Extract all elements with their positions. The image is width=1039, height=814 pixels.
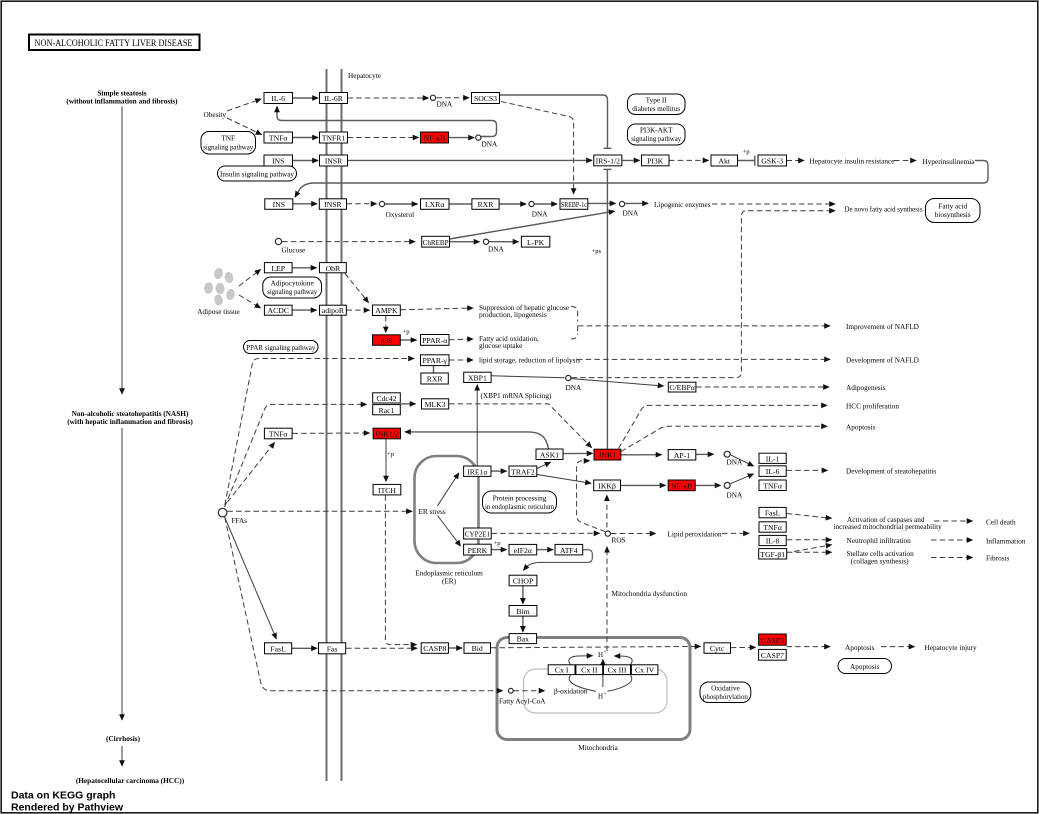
wire Cytc to CASP3/7 dashed — [731, 646, 756, 648]
svg-text:TNF: TNF — [221, 135, 235, 143]
wire TNFR1 to NF-kB dashed — [348, 137, 419, 139]
gene box PPARa — [421, 335, 450, 346]
wire oxysterol to LXRa — [385, 203, 418, 205]
wire Akt inhibits GSK-3 — [738, 160, 755, 162]
svg-text:FasL: FasL — [765, 509, 781, 518]
svg-text:AMPK: AMPK — [375, 306, 398, 315]
wire DNA7 to IL-1 IL-6 — [730, 455, 754, 466]
svg-text:(without inflammation and fibr: (without inflammation and fibrosis) — [66, 97, 178, 106]
wire XBP1 to DNA6 — [491, 376, 564, 378]
wire fatty acyl-CoA to beta-oxidation dashed — [514, 690, 545, 692]
svg-text:Cytc: Cytc — [710, 644, 725, 653]
svg-text:β-oxidation: β-oxidation — [554, 688, 588, 696]
svg-text:(ER): (ER) — [442, 578, 457, 586]
gene box Rac1 — [373, 405, 401, 415]
wire obesity to IL-6 dashed — [227, 99, 261, 111]
svg-text:biosynthesis: biosynthesis — [935, 211, 971, 219]
node ROS circle — [605, 531, 610, 536]
gene box Cdc42 — [373, 393, 401, 403]
svg-text:in endoplasmic reticulum: in endoplasmic reticulum — [485, 503, 554, 511]
progression axis labels — [66, 89, 178, 106]
wire ER stress to PERK — [438, 516, 461, 547]
wire ATF4 curve to CHOP — [524, 550, 593, 571]
svg-text:+p: +p — [742, 149, 750, 156]
wire JNK1 to HCC proliferation dashed — [619, 405, 828, 448]
node DNA circle top — [430, 95, 435, 100]
wire ChREBP diagonal to DNA4 — [450, 211, 615, 239]
gene box TNFa — [264, 132, 293, 143]
wire PERK to eIF2a — [492, 549, 507, 551]
svg-text:Mitochondria dysfunction: Mitochondria dysfunction — [612, 590, 688, 598]
svg-text:+ps: +ps — [592, 248, 602, 255]
wire progression line 1 — [121, 107, 123, 395]
gene box INS lower — [265, 199, 293, 210]
wire DNA8 up to cytokines — [730, 474, 754, 484]
gene box ATF4 — [555, 544, 583, 555]
membrane line inner — [341, 69, 343, 781]
wire LXRa RXR bind — [449, 203, 472, 205]
svg-text:FFAs: FFAs — [232, 517, 248, 525]
gene box IRS-1/2 — [594, 155, 622, 166]
svg-text:TNFα: TNFα — [269, 430, 288, 439]
wire SOCS3 inhibits IRS-1/2 — [500, 95, 608, 148]
wire adipose to LEP dashed — [239, 270, 261, 287]
wire IKKb to NF-kB2 — [621, 484, 666, 486]
node DNA circle 3 — [529, 201, 534, 206]
svg-text:Adipose tissue: Adipose tissue — [197, 308, 240, 316]
svg-text:TNFα: TNFα — [269, 134, 288, 143]
svg-text:PI3K: PI3K — [647, 157, 664, 166]
NASH label — [67, 409, 193, 426]
wire complex vertical arrow — [602, 660, 604, 677]
svg-text:Adipogenesis: Adipogenesis — [846, 384, 886, 392]
wire lipid storage to development of NAFLD dashed — [577, 358, 830, 360]
wire FasL to activation text dashed — [787, 514, 832, 519]
gene box IL-6R — [320, 93, 348, 104]
svg-text:+: + — [604, 651, 607, 656]
gene box PPARg — [421, 355, 450, 366]
gene box CASP7 — [759, 649, 787, 660]
gene box JNK1 red — [594, 449, 621, 460]
gene box Cytc — [704, 643, 731, 654]
svg-text:TRAF2: TRAF2 — [511, 467, 535, 476]
wire to hyperinsulinemia dashed — [894, 160, 916, 162]
wire FFAs to PPARg dashed — [225, 359, 414, 506]
svg-text:PPAR-γ: PPAR-γ — [422, 356, 447, 365]
gene box TNFR1 — [320, 132, 348, 143]
svg-text:Data on KEGG graph: Data on KEGG graph — [11, 790, 115, 802]
wire p38 to PPARa — [401, 339, 417, 341]
svg-text:Akt: Akt — [718, 157, 730, 166]
svg-text:TGF-β1: TGF-β1 — [760, 550, 785, 559]
wire complex arrows top left — [569, 656, 593, 665]
wire TRAF2 to ASK1 — [537, 462, 551, 468]
activation text — [834, 516, 943, 531]
wire hyperinsulinemia feedback to INS — [295, 161, 988, 198]
svg-text:XBP1: XBP1 — [468, 374, 487, 383]
svg-text:Hyperinsulinemia: Hyperinsulinemia — [923, 158, 976, 166]
wire NF-kB2 to DNA8 — [695, 484, 720, 486]
wire TGF-b1 to stellate dashed — [787, 551, 832, 553]
svg-text:CASP3: CASP3 — [761, 636, 784, 645]
wire DNA6 up to de novo dashed — [572, 211, 836, 378]
svg-text:Hepatocyte injury: Hepatocyte injury — [925, 644, 978, 652]
wire IRS-1/2 to PI3K — [622, 159, 640, 161]
wire FFAs to TNFa2 dashed — [228, 443, 275, 503]
svg-text:lipid storage, reduction of li: lipid storage, reduction of lipolysis — [479, 357, 580, 365]
gene box INSR lower — [319, 199, 346, 210]
svg-text:IL-1: IL-1 — [766, 454, 780, 463]
gene box IL-8 — [759, 535, 786, 545]
gene box Akt — [711, 155, 738, 166]
wire SREBP-1c to DNA4 — [588, 202, 616, 204]
gene box Bax — [509, 634, 536, 644]
gene box C/EBPa — [668, 382, 696, 392]
node DNA circle 5 — [483, 239, 488, 244]
wire IL-6 to development of steatohepatitis dashed — [787, 469, 828, 471]
svg-text:Oxysterol: Oxysterol — [386, 211, 415, 219]
svg-text:Cdc42: Cdc42 — [376, 394, 396, 403]
wire TRAF2 to IKKb — [537, 475, 591, 484]
gene box NF-kB2 red — [668, 480, 695, 491]
svg-text:glucose uptake: glucose uptake — [479, 342, 522, 350]
svg-text:Insulin signaling pathway: Insulin signaling pathway — [220, 171, 294, 179]
gene box MLK3 — [422, 399, 449, 409]
svg-text:TNFα: TNFα — [763, 523, 782, 532]
svg-text:(XBP1 mRNA Splicing): (XBP1 mRNA Splicing) — [481, 392, 552, 400]
node DNA circle 7 — [724, 451, 730, 457]
svg-text:+: + — [604, 692, 607, 697]
svg-text:Hepatocyte insulin resistance: Hepatocyte insulin resistance — [810, 158, 895, 166]
svg-text:FasL: FasL — [270, 645, 286, 654]
svg-text:GSK-3: GSK-3 — [761, 157, 783, 166]
wire PPARg RXR connector — [433, 366, 435, 374]
pathway box oxidative phosphorylation — [700, 682, 751, 703]
svg-text:Rendered by Pathview: Rendered by Pathview — [11, 802, 124, 814]
gene box IL-1 — [759, 453, 786, 463]
pathway box adipocytokine — [263, 277, 322, 298]
wire obesity to TNFa dashed — [227, 118, 262, 135]
gene box Cx III — [604, 665, 631, 675]
wire CHOP to Bim — [522, 586, 524, 604]
wire complex arrows bottom left — [569, 676, 596, 692]
svg-text:PI3K-AKT: PI3K-AKT — [640, 127, 673, 135]
svg-text:phosphorylation: phosphorylation — [703, 693, 748, 701]
wire DNA3 to SREBP-1c — [535, 203, 558, 205]
brace to improvement — [571, 307, 578, 340]
wire ROS curve to JNK1 dashed — [577, 461, 606, 532]
svg-text:Fas: Fas — [327, 645, 338, 654]
wire IRE1a to TRAF2 — [491, 470, 506, 472]
node fatty acyl-CoA circle — [508, 688, 513, 693]
svg-text:+p: +p — [493, 540, 501, 547]
svg-text:LEP: LEP — [271, 264, 285, 273]
svg-text:INS: INS — [272, 157, 284, 166]
svg-text:Endoplasmic reticulum: Endoplasmic reticulum — [415, 570, 483, 578]
svg-text:H: H — [598, 693, 603, 701]
wire JNK1 to AP-1 — [621, 454, 662, 456]
footer credits — [11, 790, 124, 814]
svg-text:ACDC: ACDC — [268, 306, 289, 315]
gene box INS — [264, 155, 293, 166]
suppression text — [479, 304, 569, 319]
gene box SOCS3 — [472, 93, 500, 104]
svg-text:DNA: DNA — [437, 101, 453, 109]
node DNA circle NF-kB — [476, 135, 481, 140]
wire JNK1/2 to ITCH — [385, 439, 387, 482]
wire FFAs to ER stress dashed — [227, 510, 412, 512]
svg-text:ATF4: ATF4 — [560, 546, 578, 555]
gene box ObR — [320, 263, 347, 273]
svg-text:Apoptosis: Apoptosis — [846, 423, 876, 431]
svg-text:ObR: ObR — [326, 264, 341, 273]
svg-text:Hepatocyte: Hepatocyte — [348, 72, 381, 80]
svg-text:ChREBP: ChREBP — [423, 238, 449, 247]
svg-text:CASP8: CASP8 — [423, 644, 446, 653]
wire C/EBPa to adipogenesis dashed — [696, 386, 829, 388]
wire ChREBP to DNA5 — [450, 241, 480, 243]
gene box ASK1 — [536, 449, 563, 460]
wire progression line 3 — [121, 746, 123, 766]
svg-text:SREBP-1c: SREBP-1c — [561, 200, 587, 209]
ER label — [415, 570, 483, 586]
gene box GSK-3 — [758, 155, 787, 166]
svg-text:Cx II: Cx II — [581, 666, 598, 675]
wire IRE1a to XBP1 — [476, 385, 478, 466]
svg-text:Development of NAFLD: Development of NAFLD — [846, 356, 919, 364]
gene box TNFa2 — [264, 428, 292, 439]
wire DNA5 to L-PK — [489, 241, 519, 243]
svg-text:IL-6: IL-6 — [271, 94, 285, 103]
svg-text:L-PK: L-PK — [527, 238, 545, 247]
wire mitochondria dysfunction to ROS dashed — [606, 547, 608, 651]
svg-text:Bid: Bid — [472, 644, 483, 653]
svg-text:IRE1α: IRE1α — [467, 467, 487, 476]
gene box IL-6 second — [759, 466, 786, 477]
svg-text:diabetes mellitus: diabetes mellitus — [632, 105, 680, 113]
svg-text:INSR: INSR — [325, 157, 343, 166]
svg-text:+p: +p — [387, 451, 395, 458]
wire AMPK to p38 dashed — [385, 316, 387, 333]
gene box FasL2 — [265, 643, 292, 654]
svg-text:Cx I: Cx I — [555, 666, 569, 675]
gene box Fas — [319, 643, 346, 654]
fatty acid oxidation text — [479, 335, 539, 350]
wire IL-6R to DNA dashed — [348, 97, 429, 99]
svg-text:ASK1: ASK1 — [540, 450, 559, 459]
svg-text:HCC proliferation: HCC proliferation — [846, 403, 899, 411]
svg-text:DNA: DNA — [623, 209, 639, 217]
wire progression line 2 — [121, 428, 123, 720]
wire glucose to ChREBP dashed — [282, 241, 415, 243]
gene box RXR2 — [421, 373, 448, 384]
svg-text:CASP7: CASP7 — [761, 651, 784, 660]
wire PI3K to Akt dashed — [669, 159, 709, 161]
gene box AP-1 — [668, 450, 696, 460]
wire ROS to lipid peroxidation dashed — [611, 533, 656, 535]
svg-text:PPAR-α: PPAR-α — [422, 336, 447, 345]
pathway box insulin signaling — [218, 166, 297, 181]
svg-text:DNA: DNA — [488, 246, 504, 254]
wire FFAs to FasL — [225, 517, 277, 639]
svg-text:adipoR: adipoR — [322, 306, 345, 315]
svg-text:SOCS3: SOCS3 — [474, 94, 497, 103]
gene box TNFa3 — [759, 480, 786, 491]
wire FFAs to fatty acyl-CoA dashed — [225, 517, 503, 690]
pathway box type II diabetes — [628, 94, 686, 115]
svg-text:DNA: DNA — [566, 384, 582, 392]
svg-text:DNA: DNA — [727, 492, 743, 500]
wire PPARa to fatty acid oxidation text dashed — [449, 338, 473, 341]
svg-text:Cx III: Cx III — [608, 666, 627, 675]
svg-text:Protein processing: Protein processing — [493, 494, 547, 502]
gene box Cx I — [548, 665, 575, 675]
wire TGF-b1 to neutrophil diagonal dashed — [794, 545, 832, 552]
wire adipose to ACDC dashed — [239, 295, 261, 308]
pathway box fatty acid biosynthesis — [926, 199, 981, 223]
svg-text:Obesity: Obesity — [204, 111, 227, 119]
svg-text:C/EBPα: C/EBPα — [669, 383, 694, 392]
wire complex vertical line bottom — [602, 676, 604, 687]
stellate text — [847, 550, 915, 565]
wire CASP3 to apoptosis dashed — [787, 646, 831, 648]
gene box p38 red — [373, 335, 401, 346]
svg-text:JNK1: JNK1 — [598, 451, 616, 460]
pathway box PPAR signaling — [244, 341, 319, 354]
svg-text:Oxidative: Oxidative — [711, 685, 740, 693]
gene box ChREBP — [422, 236, 450, 247]
wire TNFa2 to JNK1/2 dashed — [293, 432, 370, 434]
node DNA circle 6 — [566, 375, 571, 380]
wire neutrophil to inflammation dashed — [931, 539, 973, 541]
svg-text:increased mitochondrial permea: increased mitochondrial permeability — [834, 523, 943, 531]
gene box SREBP-1c — [560, 199, 588, 210]
svg-text:PPAR signaling pathway: PPAR signaling pathway — [246, 344, 315, 352]
svg-text:RXR: RXR — [427, 375, 444, 384]
wire NF-kB DNA feedback to IL-6 — [277, 107, 497, 137]
mitochondria organelle — [497, 638, 690, 740]
svg-text:IL-8: IL-8 — [766, 537, 780, 546]
gene box JNK1/2 red — [373, 428, 400, 439]
svg-text:Fatty acid: Fatty acid — [938, 203, 967, 211]
svg-text:Neutrophil infiltration: Neutrophil infiltration — [847, 537, 912, 545]
wire AMPK to suppression text dashed — [401, 308, 474, 310]
svg-text:signaling pathway: signaling pathway — [631, 135, 681, 143]
svg-text:NF-κB: NF-κB — [671, 482, 692, 491]
wire complex arrows top right — [615, 656, 633, 665]
node DNA circle 4 — [619, 201, 624, 206]
wire complex arrows bottom right — [608, 676, 632, 692]
wire lipogenic enzymes to de novo dashed — [712, 203, 835, 205]
wire ER stress to IRE1a — [438, 473, 459, 506]
wire PPARg to lipid storage text dashed — [449, 359, 473, 361]
membrane line outer — [326, 69, 328, 781]
wire ROS to IKKb dashed — [606, 495, 608, 527]
wire LEP to ObR — [293, 267, 317, 269]
svg-text:CYP2E1: CYP2E1 — [465, 530, 491, 539]
wire IL-8 to neutrophil dashed — [787, 539, 832, 541]
wire ASK1 curve to JNK1/2 — [405, 432, 549, 449]
wire DNA6 to C/EBPa — [571, 379, 663, 386]
svg-text:IL-6R: IL-6R — [324, 94, 344, 103]
gene box Cx II — [576, 665, 603, 675]
svg-text:Mitochondria: Mitochondria — [578, 744, 618, 752]
mitochondria inner membrane — [524, 669, 668, 713]
svg-text:signaling pathway: signaling pathway — [267, 288, 317, 296]
gene box TNFa4 — [759, 522, 786, 532]
gene box TGF-b1 — [759, 549, 787, 559]
gene box CASP8 — [421, 643, 448, 654]
wire FFAs to Cdc42/Rac1 dashed — [225, 404, 367, 507]
svg-text:ITCH: ITCH — [378, 486, 396, 495]
gene box IL-6 — [264, 93, 293, 104]
svg-text:(Cirrhosis): (Cirrhosis) — [106, 734, 141, 743]
wire INSR to IRS-1/2 long — [348, 159, 593, 161]
gene box Bim — [509, 606, 537, 617]
svg-text:Type II: Type II — [646, 97, 668, 105]
svg-text:DNA: DNA — [482, 141, 498, 149]
wire activation to cell death dashed — [934, 520, 973, 522]
svg-text:AP-1: AP-1 — [674, 451, 690, 460]
svg-text:MLK3: MLK3 — [425, 400, 446, 409]
title box — [29, 35, 200, 51]
pathway box TNF signaling — [201, 132, 256, 155]
wire ASK1 to JNK1 — [563, 452, 593, 454]
gene box AMPK — [373, 305, 401, 316]
gene box INSR — [320, 155, 348, 166]
svg-text:Improvement of NAFLD: Improvement of NAFLD — [846, 323, 919, 331]
wire TNFa to TNFR1 — [293, 137, 319, 139]
gene box Cx IV — [631, 665, 658, 675]
wire JNK1 inhibits IRS-1/2 vertical — [606, 170, 608, 449]
wire Bim to Bax — [522, 616, 524, 632]
svg-text:NF-κB: NF-κB — [424, 134, 445, 143]
gene box XBP1 — [464, 372, 491, 382]
svg-text:Cell death: Cell death — [986, 519, 1016, 527]
node FFAs circle — [218, 508, 227, 517]
svg-text:production, lipogenesis: production, lipogenesis — [479, 311, 547, 319]
svg-text:INSR: INSR — [324, 200, 342, 209]
svg-text:Glucose: Glucose — [282, 247, 306, 255]
svg-text:Bim: Bim — [516, 607, 529, 616]
wire Fas to CASP8 dashed — [346, 647, 417, 649]
svg-text:PERK: PERK — [468, 546, 488, 555]
gene box RXR — [472, 199, 499, 210]
svg-text:IKKβ: IKKβ — [598, 482, 616, 491]
gene box CASP3 red — [759, 634, 787, 645]
svg-text:Fatty Acyl-CoA: Fatty Acyl-CoA — [499, 698, 546, 706]
svg-text:(Hepatocellular carcinoma (HCC: (Hepatocellular carcinoma (HCC)) — [76, 776, 185, 785]
pathway box protein processing — [483, 491, 557, 513]
gene box PI3K — [642, 155, 670, 166]
gene box CHOP — [509, 575, 537, 586]
wire DNA4 to lipogenic enzymes — [625, 202, 648, 204]
svg-text:(with hepatic inflammation and: (with hepatic inflammation and fibrosis) — [67, 417, 193, 426]
wire Cdc42/Rac1 to MLK3 — [401, 403, 416, 405]
svg-text:CHOP: CHOP — [513, 577, 534, 586]
svg-text:Rac1: Rac1 — [379, 406, 395, 415]
svg-text:Lipogenic enzymes: Lipogenic enzymes — [654, 201, 711, 209]
gene box IKKb — [594, 480, 621, 491]
svg-text:Cx IV: Cx IV — [635, 666, 655, 675]
svg-text:ER stress: ER stress — [419, 508, 446, 516]
svg-text:LXRα: LXRα — [425, 200, 444, 209]
gene box ACDC — [264, 305, 292, 315]
wire INS to INSR — [293, 160, 319, 162]
svg-text:Fibrosis: Fibrosis — [986, 555, 1010, 563]
wire RXR to DNA3 — [500, 203, 527, 205]
svg-text:DNA: DNA — [532, 210, 548, 218]
